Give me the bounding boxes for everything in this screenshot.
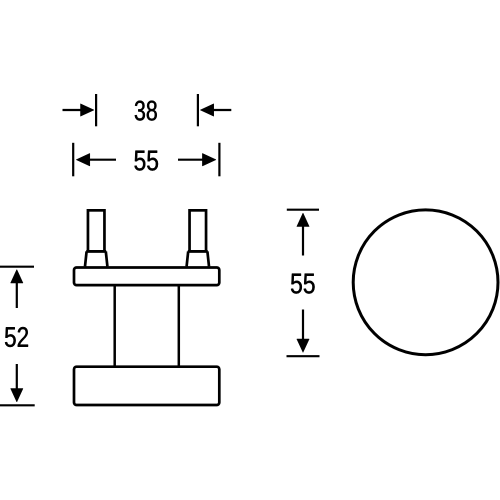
dimension 55 (diameter): down arrow — [297, 310, 309, 353]
dimension 55 (width): left arrow (pointing left) — [76, 153, 116, 166]
dimension 52: bottom extension tick — [0, 404, 35, 406]
dimension 55 (width): left extension tick — [72, 143, 74, 177]
dimension 52: down arrow — [11, 364, 23, 402]
knob side view: top plate (rose) — [74, 268, 219, 286]
dimension 38: right arrow (pointing left) — [200, 104, 231, 116]
knob side view: base cylinder (knob head) — [74, 367, 219, 405]
dimension 52: up arrow — [11, 270, 23, 309]
dimension 55 (diameter): up arrow — [297, 213, 309, 256]
dimension 52: value label — [5, 327, 28, 347]
dimension 38: value label — [135, 101, 157, 121]
dimension 55 (width): right extension tick — [218, 143, 220, 177]
knob side view: neck left line — [113, 286, 116, 367]
dimension 55 (diameter): value label — [291, 274, 315, 294]
dimension 38: right extension tick — [197, 94, 199, 126]
dimension 38: left extension tick — [95, 94, 97, 126]
dimension 55 (width): right arrow (pointing right) — [178, 153, 216, 166]
knob side view: neck right line — [178, 286, 181, 367]
knob side view: right screw collar — [187, 251, 209, 266]
knob side view: left screw collar — [85, 251, 107, 266]
dimension 55 (diameter): bottom extension tick — [287, 355, 320, 357]
knob side view: left screw shaft — [88, 210, 105, 251]
dimension 55 (width): value label — [135, 151, 159, 171]
dimension 38: left arrow (pointing right) — [63, 104, 95, 116]
dimension 55 (diameter): top extension tick — [287, 209, 319, 211]
knob side view: right screw shaft — [190, 210, 207, 251]
dimension 52: top extension tick — [0, 266, 34, 268]
knob front view: circle — [353, 210, 498, 355]
